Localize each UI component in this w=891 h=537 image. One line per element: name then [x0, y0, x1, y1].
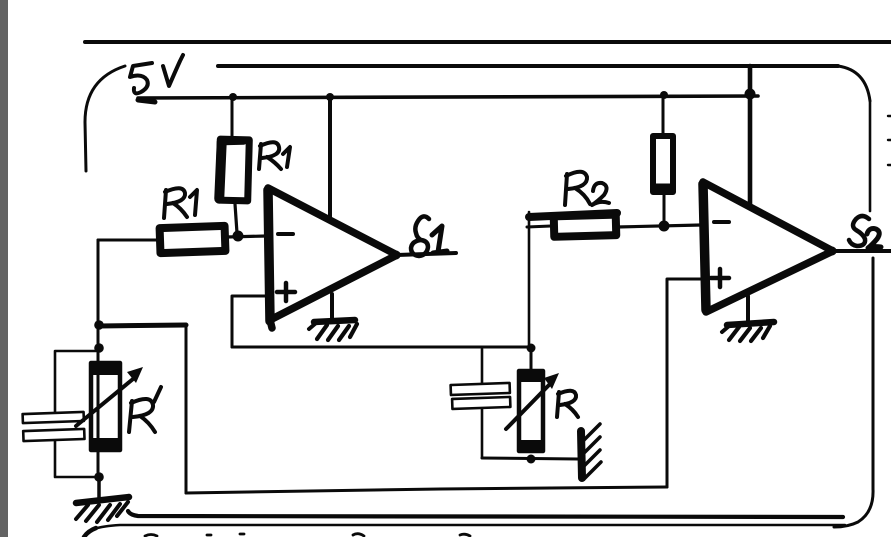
U1 minus sign [278, 232, 293, 236]
long bottom feedback wire [186, 487, 667, 493]
thick link wire to bottom feedback [99, 325, 186, 326]
5V power rail [138, 96, 758, 98]
enclosure right edge (lower) [872, 258, 875, 489]
ground (right network, hatched wall) [581, 424, 601, 479]
wire down right of R' [185, 325, 188, 493]
wire rail to resistor R1 top [231, 97, 234, 137]
node: U2 inverting junction [659, 221, 670, 232]
label R [557, 391, 578, 417]
enclosure bottom-right corner [834, 489, 873, 527]
enclosure top-left corner [85, 66, 125, 171]
op-amp U2 [703, 182, 833, 312]
wire rail to right vertical resistor [662, 95, 665, 133]
wire RC network bottom [482, 458, 578, 459]
output wire S2 [833, 249, 891, 253]
variable resistor R' [76, 363, 143, 451]
label 5V [130, 55, 183, 93]
U1 plus sign [277, 283, 295, 301]
U1 ground stub [330, 294, 334, 321]
node: ground junction left [94, 472, 104, 482]
capacitor C1 branch wires [55, 351, 99, 477]
resistor R1 (series, horizontal) [160, 226, 226, 253]
R2 top-left overshoot stroke [529, 213, 617, 217]
node: rail to U1 supply [326, 93, 334, 101]
wire U1 + input to feedback node [232, 296, 266, 347]
wire R2 to U2 inverting input [617, 225, 701, 227]
wire U1 supply [328, 97, 332, 220]
label S2 [849, 216, 881, 248]
cut-off handwriting at bottom edge [84, 528, 470, 537]
node: RC bottom junction [527, 455, 536, 464]
node: RC network top junction [527, 344, 536, 353]
label R' [129, 387, 161, 432]
wire feedback across to RC network [232, 346, 531, 349]
ground (op-amp U1) [309, 320, 357, 340]
resistor R2 [554, 215, 617, 237]
enclosure top edge [218, 64, 838, 68]
node: rail to R1 stub [229, 93, 237, 101]
node: link junction [94, 320, 104, 330]
wire U2 supply [748, 66, 753, 206]
capacitor C1 plates [23, 412, 85, 441]
capacitor C2 plates [451, 383, 511, 409]
resistor (vertical, right stage) [653, 136, 673, 192]
variable resistor R [506, 371, 559, 452]
enclosure bottom edge [128, 511, 843, 517]
label R2 [565, 172, 609, 205]
U2 ground stub [746, 296, 750, 322]
left page-edge shading [0, 0, 8, 537]
wire left input column [97, 240, 100, 478]
enclosure right edge (upper) [869, 101, 872, 211]
capacitor C2 branch wire [481, 349, 484, 458]
label R1 (series resistor) [164, 188, 197, 218]
node: inverting input junction [233, 231, 244, 242]
rail left end tick [138, 100, 155, 102]
label R1 (vertical resistor) [259, 142, 290, 169]
underline rule below enclosure [94, 525, 845, 529]
wire R1 right to U1 inverting input [227, 236, 266, 237]
U2 minus sign [714, 220, 729, 224]
wire junction down to R top [530, 348, 533, 371]
enclosure top-right corner [838, 66, 870, 101]
cut-off marks at right edge [888, 116, 891, 165]
node: rail to right resistor [660, 91, 668, 99]
label S1 [411, 216, 447, 256]
ground stub left network [97, 477, 101, 500]
resistor R1 (vertical, left stage) [219, 139, 250, 201]
ground (left network) [76, 497, 129, 522]
ground (op-amp U2) [722, 322, 774, 341]
wire input to R1 left [98, 239, 156, 242]
U2 plus sign [711, 269, 729, 287]
wire R1 bottom to inverting node [235, 204, 237, 233]
node: rail to U2 supply [745, 89, 756, 100]
output wire S1 [397, 253, 456, 255]
wire R2 left column [528, 212, 531, 349]
op-amp U1 [268, 188, 397, 328]
top page rule [85, 40, 891, 44]
wire up to U2 + input [667, 279, 703, 487]
node: capacitor branch top [94, 343, 104, 353]
wire resistor bottom to inverting node [663, 195, 666, 226]
